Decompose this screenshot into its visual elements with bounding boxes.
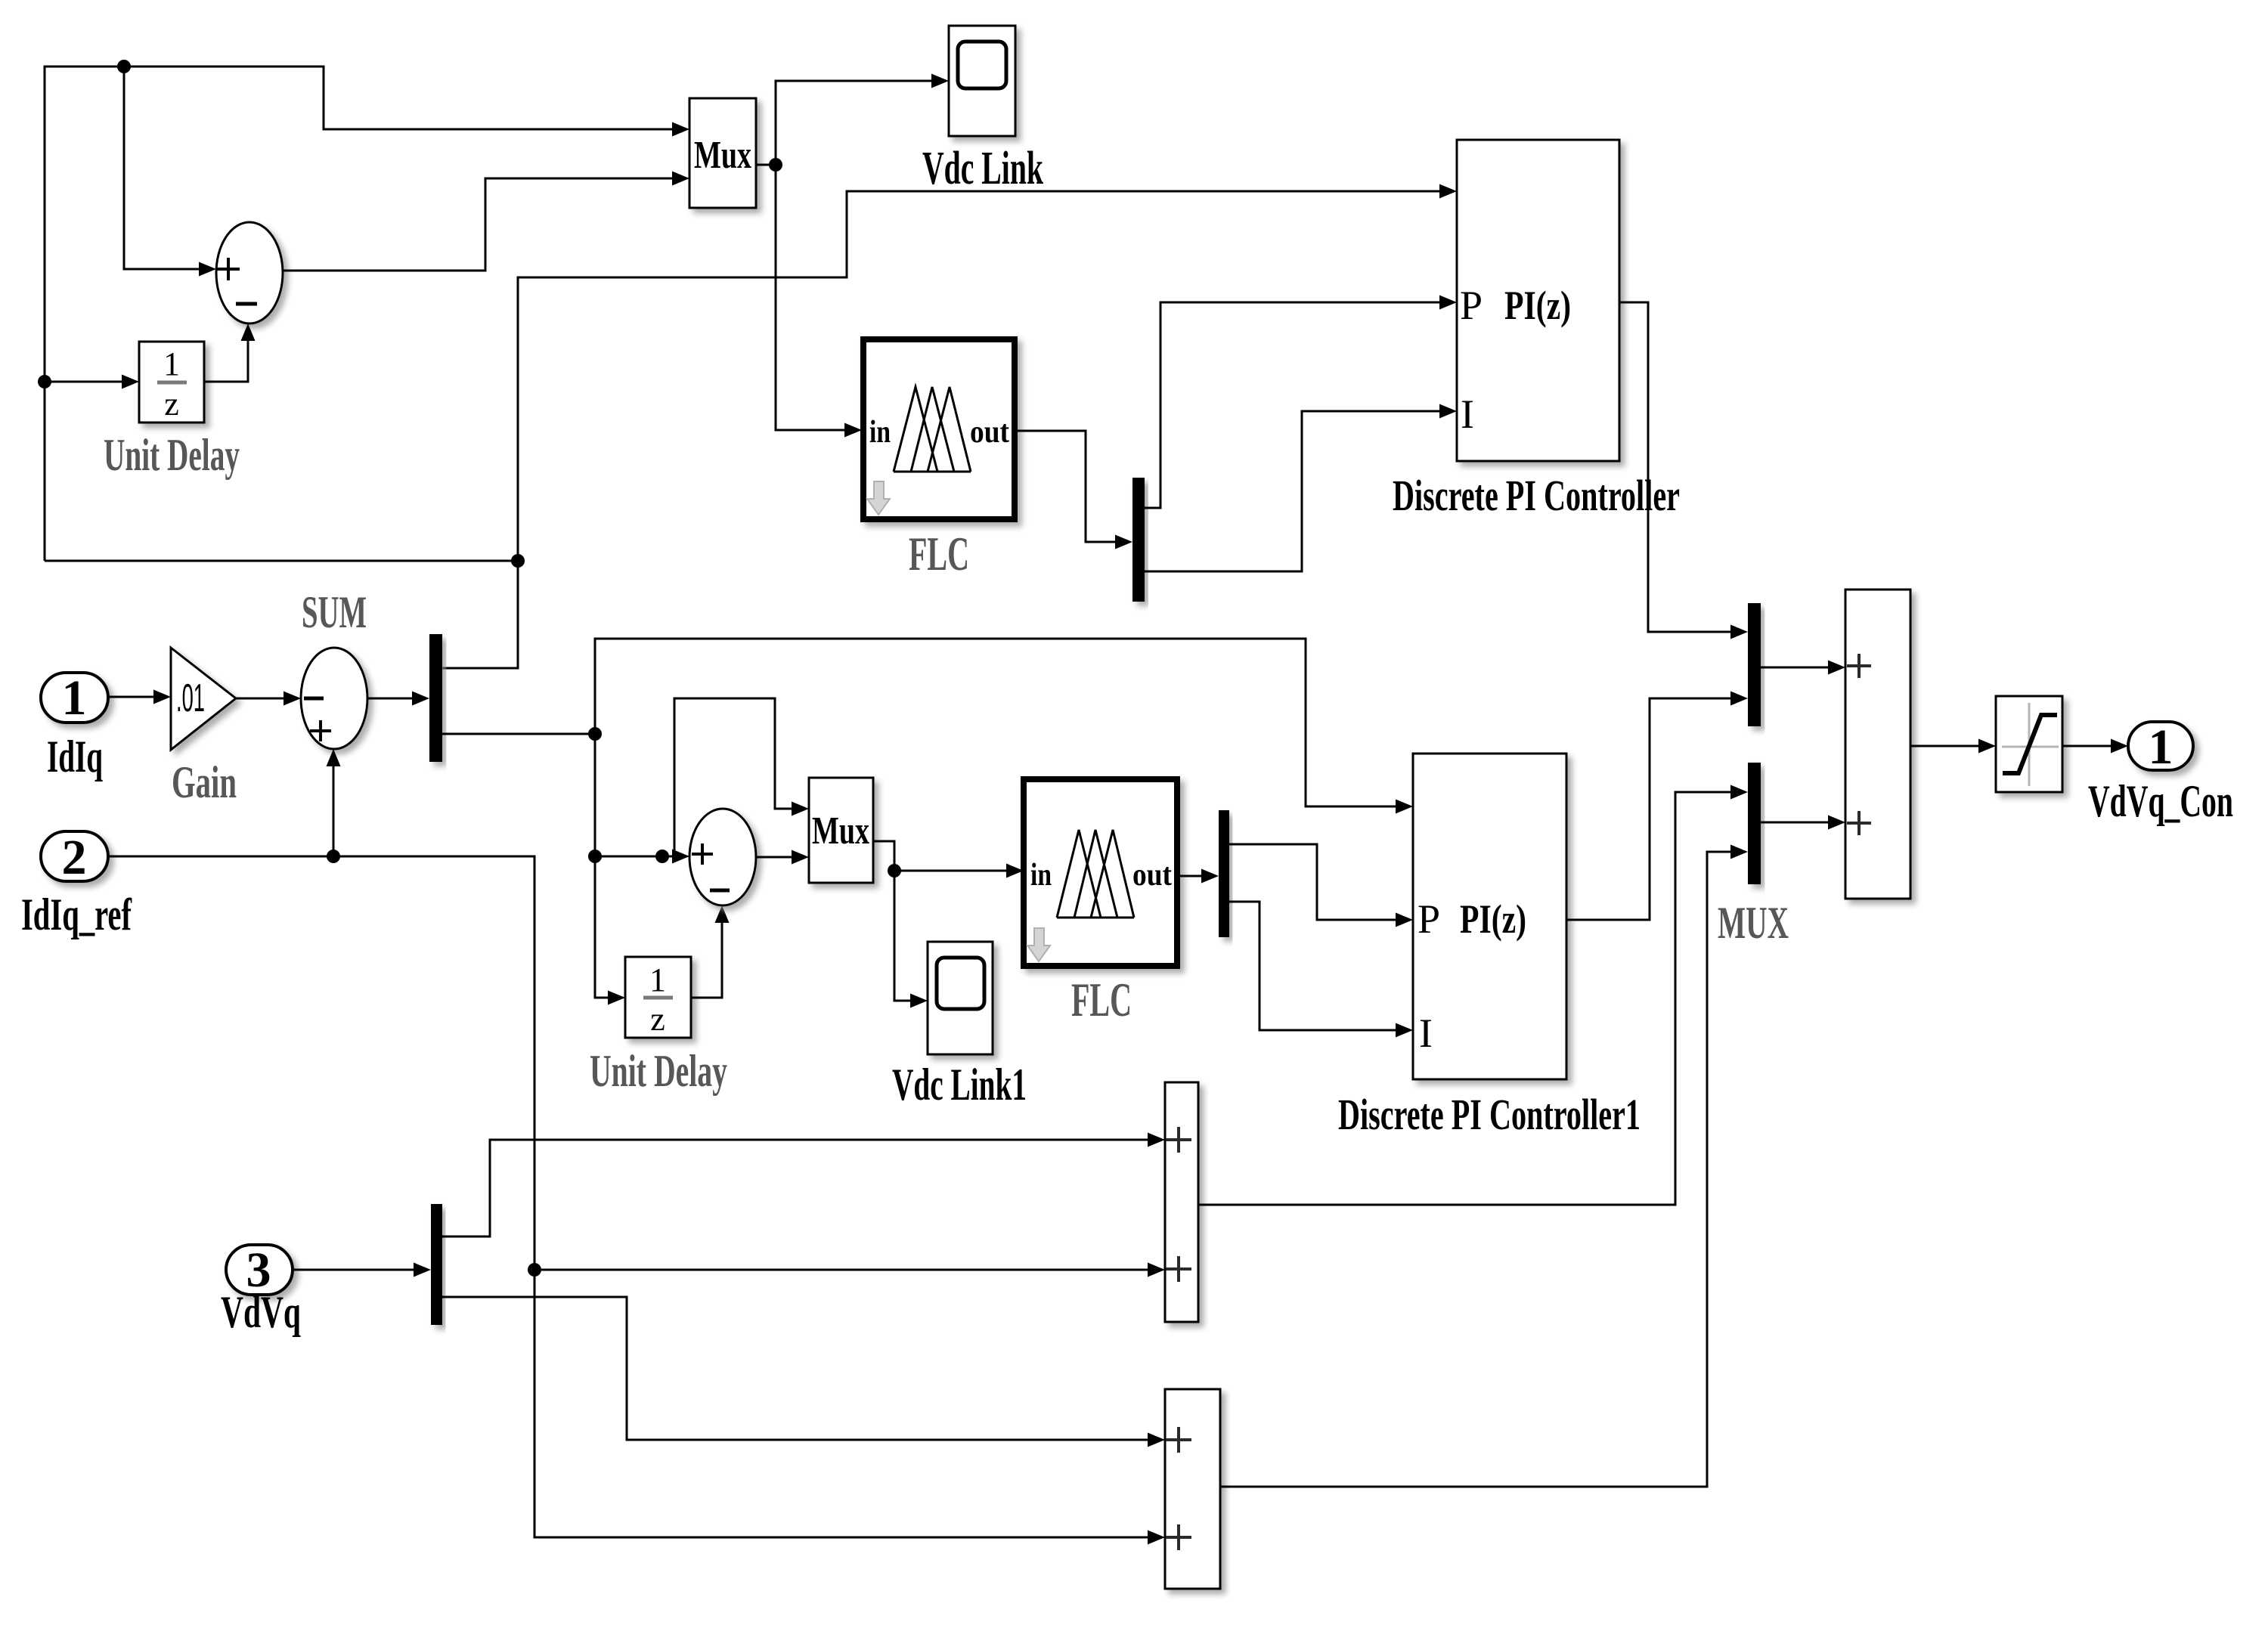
arrowhead into PI2 I port <box>1396 1023 1413 1038</box>
svg-text:FLC: FLC <box>1071 973 1132 1026</box>
arrowhead into output port <box>2111 739 2128 754</box>
arrowhead up into S1 minus input <box>241 323 256 341</box>
SA plus input 1 <box>1166 1127 1191 1153</box>
scope block Vdc Link <box>949 26 1015 136</box>
wire S2 output to error bar B1 <box>367 698 418 700</box>
arrowhead into adder SA top input <box>1148 1133 1165 1147</box>
svg-text:Unit Delay: Unit Delay <box>590 1046 727 1096</box>
SR plus input 2 <box>1847 811 1871 835</box>
mux block MUX2 <box>809 778 873 883</box>
wire FLC1 out to demux bar B2 <box>1016 431 1121 542</box>
S1 minus sign <box>236 302 257 306</box>
wire S3 output to Mux2 input 2 <box>756 856 793 859</box>
wire bar B2 to PI1 I input <box>1145 411 1445 571</box>
wire FLC2 out to demux bar B3 <box>1177 875 1207 877</box>
arrowhead into bar B5 input 2 <box>1730 692 1748 706</box>
wire loop to Mux2 input 1 <box>674 698 793 853</box>
UD2 fraction bar <box>643 996 673 1000</box>
wire port1 to Gain <box>108 696 153 698</box>
svg-text:Vdc Link: Vdc Link <box>922 143 1043 194</box>
SB plus input 1 <box>1166 1427 1191 1453</box>
svg-text:P: P <box>1460 283 1483 328</box>
discrete PI controller block PI1 <box>1457 140 1619 461</box>
S2 plus sign <box>310 720 331 741</box>
junction junction on feedback vertical <box>511 554 525 568</box>
arrowhead into UD1 <box>122 375 139 389</box>
wire bar B4 to adder SB top input <box>442 1297 1148 1440</box>
arrowhead into FLC1 in <box>844 423 862 438</box>
wire error down to second loop <box>595 734 614 998</box>
wire PI2 output to right mux bar B5 <box>1566 698 1737 920</box>
SR plus input 1 <box>1847 654 1871 678</box>
svg-text:IdIq_ref: IdIq_ref <box>21 890 132 939</box>
arrowhead into demux bar B2 <box>1115 535 1132 549</box>
wire adder SA output to bar B6 <box>1198 792 1737 1205</box>
arrowhead up into S2 plus input <box>327 749 341 766</box>
Vdc Link1 scope screen <box>937 958 984 1009</box>
junction error and S3 junction <box>588 850 602 863</box>
svg-text:Unit Delay: Unit Delay <box>104 430 240 480</box>
arrowhead into Mux input 1 <box>672 122 689 137</box>
svg-text:1: 1 <box>62 670 87 726</box>
wire port3 to demux bar B4 <box>293 1269 414 1271</box>
discrete PI controller block PI2 <box>1413 754 1566 1079</box>
SAT1 icon curve <box>2003 715 2057 773</box>
S2 minus sign <box>304 697 324 701</box>
svg-text:out: out <box>970 415 1009 450</box>
wire feedback loop left and top <box>45 67 677 561</box>
wire Mux2 output to scope Vdc Link1 <box>873 841 915 1001</box>
wire bar B3 to PI2 P input <box>1229 844 1402 920</box>
svg-text:IdIq: IdIq <box>47 732 103 782</box>
mux bar B1 (error signal) <box>429 634 442 762</box>
svg-text:I: I <box>1461 392 1474 437</box>
summing junction S1 (top-left) <box>216 222 283 323</box>
wire bar B5 output to adder SR <box>1761 667 1828 669</box>
junction Mux2 output branch <box>888 864 901 877</box>
wire bar B4 to adder SA top input <box>442 1140 1148 1236</box>
S3 minus sign <box>710 889 730 893</box>
arrowhead into bar B5 input 1 <box>1730 625 1748 639</box>
svg-text:1: 1 <box>163 345 180 382</box>
wire bar B3 to PI2 I input <box>1229 902 1402 1030</box>
wire bar B6 output to adder SR <box>1761 822 1828 824</box>
arrowhead into Mux2 input 1 <box>792 802 809 816</box>
svg-text:.01: .01 <box>176 676 205 720</box>
arrowhead into FLC2 in <box>1006 864 1024 878</box>
FLC2 gray drop arrow <box>1027 928 1050 961</box>
unit delay block UD2 <box>625 957 691 1038</box>
svg-text:Discrete PI Controller: Discrete PI Controller <box>1393 471 1680 520</box>
mux bar B5 (upper right) <box>1748 603 1761 726</box>
junction branch to Unit Delay UD1 <box>38 375 51 388</box>
wire error to summing junction S3 <box>595 856 678 858</box>
arrowhead into PI2 top port <box>1396 800 1413 814</box>
summing junction S3 <box>689 809 756 905</box>
svg-text:1: 1 <box>649 961 666 998</box>
mux bar B6 (lower right) <box>1748 763 1761 884</box>
input port 1 <box>41 673 108 723</box>
svg-text:z: z <box>650 1001 665 1038</box>
arrowhead into adder SA bottom input <box>1148 1263 1165 1277</box>
arrowhead into error bar B1 <box>412 692 429 706</box>
svg-text:Vdc Link1: Vdc Link1 <box>892 1060 1027 1110</box>
svg-text:P: P <box>1417 896 1440 942</box>
arrowhead into PI1 top port <box>1439 184 1457 199</box>
svg-text:in: in <box>869 415 891 450</box>
wire Gain to summing junction S2 <box>236 698 283 700</box>
arrowhead into demux bar B3 <box>1201 869 1219 884</box>
arrowhead into adder SB bottom input <box>1148 1531 1165 1545</box>
demux bar B4 (VdVq) <box>431 1204 442 1325</box>
svg-text:MUX: MUX <box>1718 898 1789 948</box>
S1 plus sign <box>217 258 240 280</box>
svg-text:Mux: Mux <box>694 134 751 177</box>
svg-text:FLC: FLC <box>909 527 969 580</box>
demux bar B3 (after FLC2) <box>1219 810 1229 937</box>
wire saturation output to output port <box>2062 745 2111 747</box>
arrowhead into S1 plus input <box>199 262 216 277</box>
unit delay block UD1 <box>139 342 204 422</box>
mux block MUX1 <box>689 98 756 208</box>
junction Mux1 output branch <box>769 158 782 172</box>
wire adder SB output to bar B6 <box>1220 852 1737 1487</box>
SA plus input 2 <box>1166 1256 1191 1282</box>
input port 2 <box>41 831 108 881</box>
wire IdIq_ref up to S2 plus input <box>333 756 335 856</box>
wire S1 output to Mux input 2 <box>283 178 677 271</box>
junction error net branch <box>588 727 602 741</box>
saturation block SAT1 <box>1996 696 2062 792</box>
svg-text:PI(z): PI(z) <box>1504 283 1571 328</box>
svg-text:Discrete PI Controller1: Discrete PI Controller1 <box>1338 1090 1641 1139</box>
SB plus input 2 <box>1166 1524 1191 1550</box>
arrowhead into bar B6 input 1 <box>1730 785 1748 800</box>
UD1 fraction bar <box>157 381 187 385</box>
wire bar B1 lower output <box>442 733 595 735</box>
scope block Vdc Link1 <box>928 942 993 1054</box>
gain block G1 value .01 <box>171 648 236 750</box>
SAT1 icon axes <box>2002 703 2059 786</box>
wire to FLC1 in <box>776 165 847 430</box>
demux bar B2 (after FLC1) <box>1132 478 1145 602</box>
wire UD1 output to S1 minus <box>204 330 248 382</box>
wire error to PI2 top input <box>595 639 1402 806</box>
svg-text:z: z <box>164 385 179 422</box>
arrowhead into Gain <box>153 690 171 704</box>
output port 1 VdVq_Con <box>2128 722 2193 770</box>
svg-text:1: 1 <box>2149 720 2173 775</box>
wire PI1 output to right mux bar B5 <box>1619 302 1737 632</box>
wire adder SR output to saturation <box>1910 745 1978 747</box>
arrowhead into saturation block <box>1978 739 1996 754</box>
adder block SB <box>1165 1389 1220 1589</box>
arrowhead into PI1 P port <box>1439 296 1457 310</box>
input port 3 <box>226 1245 293 1295</box>
arrowhead into Mux input 2 <box>672 172 689 186</box>
summing junction S2 (SUM) <box>301 648 367 749</box>
svg-text:Gain: Gain <box>172 757 237 807</box>
wire to Vdc Link scope <box>776 81 934 165</box>
arrowhead up into S3 minus input <box>715 905 730 923</box>
svg-text:PI(z): PI(z) <box>1460 896 1526 942</box>
junction IdIq_ref branch to S2 <box>327 850 340 863</box>
arrowhead into PI1 I port <box>1439 404 1457 419</box>
svg-text:in: in <box>1030 858 1052 893</box>
arrowhead into adder SR input 2 <box>1828 816 1845 830</box>
svg-text:2: 2 <box>62 830 87 885</box>
arrowhead into Vdc Link1 scope <box>910 994 928 1008</box>
arrowhead into S3 plus input <box>672 850 689 864</box>
S3 plus sign <box>692 843 713 865</box>
wire feedback tap to top-left loop <box>45 560 518 562</box>
arrowhead into adder SB top input <box>1148 1433 1165 1447</box>
wire Mux1 output <box>756 164 776 166</box>
junction second branch dot <box>655 850 669 863</box>
svg-text:VdVq_Con: VdVq_Con <box>2088 776 2233 826</box>
arrowhead into S2 minus input <box>283 692 301 706</box>
wire Mux2 output to FLC2 in <box>894 870 1008 872</box>
fuzzy logic controller block FLC1 <box>863 339 1015 519</box>
adder block SA <box>1165 1082 1198 1322</box>
svg-text:VdVq: VdVq <box>221 1287 301 1337</box>
arrowhead into Unit Delay UD2 <box>608 991 625 1005</box>
wire IdIq_ref to adder SA bottom input <box>534 1269 1148 1271</box>
svg-text:Mux: Mux <box>812 809 869 853</box>
Vdc Link scope screen <box>958 42 1006 88</box>
fuzzy logic controller block FLC2 <box>1024 779 1177 966</box>
svg-text:SUM: SUM <box>302 587 367 637</box>
wire IdIq_ref long wire <box>108 856 1148 1537</box>
wire error signal to PI1 top input <box>442 191 1445 668</box>
FLC1 gray drop arrow <box>867 481 890 515</box>
junction top-left branch <box>117 60 131 73</box>
arrowhead into PI2 P port <box>1396 913 1413 927</box>
arrowhead into bar B6 input 2 <box>1730 845 1748 859</box>
junction IdIq_ref branch to adder SA <box>528 1263 541 1277</box>
wire branch down to summing junction S1 <box>124 67 205 269</box>
FLC2 membership-function icon <box>1057 830 1134 918</box>
wire UD2 output to S3 minus <box>691 912 722 998</box>
wire to Unit Delay UD1 <box>45 381 128 383</box>
arrowhead into Mux2 input 2 <box>792 850 809 865</box>
svg-text:I: I <box>1419 1011 1433 1056</box>
wire bar B2 to PI1 P input <box>1145 302 1445 508</box>
svg-text:out: out <box>1132 858 1172 893</box>
arrowhead into adder SR input 1 <box>1828 661 1845 675</box>
arrowhead into demux bar B4 <box>414 1263 431 1277</box>
arrowhead into Vdc Link scope <box>931 74 949 88</box>
FLC1 membership-function icon <box>894 387 971 472</box>
adder block SR <box>1845 590 1910 899</box>
